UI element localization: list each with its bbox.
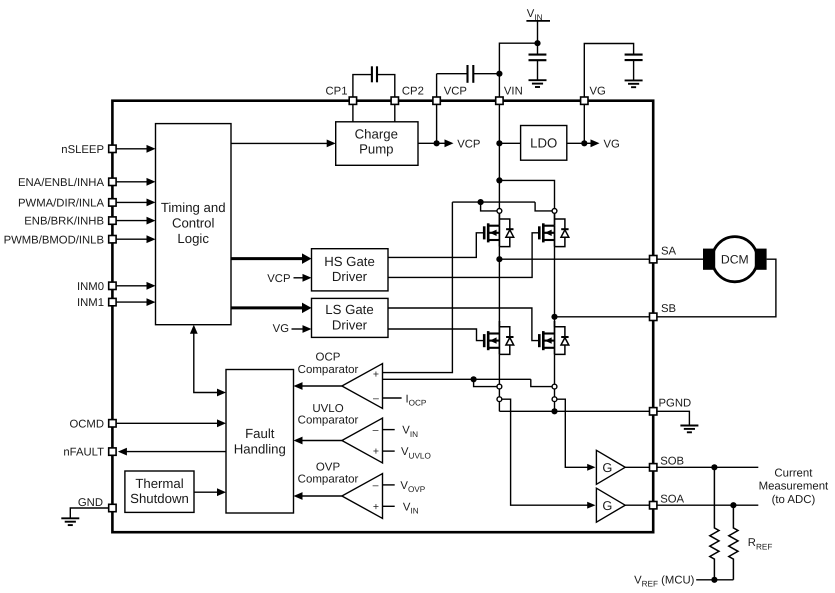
wire CP1 pin to Charge Pump [352,105,354,122]
Q2 drain sense circle [552,209,557,214]
svg-text:(to ADC): (to ADC) [772,494,816,506]
svg-text:nFAULT: nFAULT [63,447,104,459]
svg-text:PWMB/BMOD/INLB: PWMB/BMOD/INLB [4,234,104,246]
svg-text:+: + [373,446,379,458]
svg-text:Comparator: Comparator [298,415,359,427]
label OVP Comparator [298,462,359,486]
resistor RREF-B (on SOB line) [710,467,719,580]
svg-text:OCMD: OCMD [69,418,104,430]
svg-text:SB: SB [661,303,676,315]
svg-text:VG: VG [604,139,620,151]
svg-text:HS Gate: HS Gate [324,254,375,269]
comparator UVLO (triangle) [294,418,383,463]
wire high-side sense down to OCP comparator [383,202,453,373]
label Current Measurement (to ADC) [759,467,829,506]
transistor Q4 (low-side B NMOS with body diode) [539,321,569,354]
wire CP2 pin to Charge Pump [394,105,396,122]
svg-text:LDO: LDO [530,136,557,151]
svg-text:SA: SA [661,245,677,257]
pin VCP [433,85,467,104]
wire VREF rail [696,579,733,581]
wire motor return to SB pin [657,259,776,317]
UVLO - symbol [373,424,379,436]
PGND rail from Q3 to PGND pin [499,410,649,412]
svg-text:+: + [373,369,379,381]
input pin ENA/ENBL/INHA with wire into Timing and Control Logic [18,177,156,189]
wire VIN rail to right high-side FET [499,180,554,208]
pin VG [581,85,606,104]
wire Charge Pump output to VCP node [418,142,437,144]
svg-text:Driver: Driver [332,317,368,332]
wire SOA to ADC [657,504,758,506]
wire SOA amplifier to SOA pin [625,504,649,506]
wire low-side sense net to OCP comparator [383,378,531,380]
junction node SA [496,256,502,262]
junction node VIN H-bridge branch [496,177,502,183]
svg-text:Measurement: Measurement [759,481,829,493]
capacitor C-VG with ground [625,55,643,88]
junction node at VIN supply [534,40,540,46]
wire VG pin down to VG node [583,105,585,143]
comparator OCP (triangle) [294,364,383,409]
device boundary (IC outline) [112,101,653,533]
Q3 sense circle upper [497,384,502,389]
OCP - symbol [373,392,379,404]
bus Timing to HS Gate Driver [231,253,312,264]
wire SOB amplifier to SOB pin [625,466,649,468]
wire Q3 lower circle to SOA amplifier [502,399,596,508]
wire sense tap to Q2 circle [535,202,552,211]
pin VIN [496,85,523,104]
svg-text:INM1: INM1 [77,297,104,309]
svg-text:Comparator: Comparator [298,364,359,376]
label VREF (MCU) [634,574,695,588]
svg-text:–: – [373,480,379,492]
svg-text:VG: VG [590,85,606,97]
Q4 gate wire from LS Gate Driver [388,308,539,341]
Q3 gate wire from LS Gate Driver [388,329,484,341]
junction node VCP-cap on VIN wire [496,71,502,77]
block: HS Gate Driver [312,249,389,291]
wire sense tap to Q3 upper circle [474,379,497,386]
wire VCP pin down to VCP node [436,105,438,143]
svg-text:CP1: CP1 [326,86,348,98]
double arrow Fault Handling to Timing logic [190,325,226,397]
svg-text:SOB: SOB [660,455,684,467]
input pin INM0 with wire into Timing and Control Logic [77,281,156,293]
pin SOA [650,493,685,509]
wire LDO output to VG node [567,142,585,144]
svg-text:Handling: Handling [234,441,286,456]
GND pin wire and ground symbol [61,508,108,525]
Q2 gate wire from HS Gate Driver [388,233,539,278]
OVP - symbol [373,480,379,492]
transistor Q2 (high-side B NMOS with body diode) [539,213,569,246]
svg-text:DCM: DCM [721,253,749,267]
comparator OVP (triangle) [294,474,383,519]
pin CP1 [326,86,357,105]
wire SB node down to Q4 drain [554,317,556,327]
wire Q4 lower circle to SOB amplifier [557,399,596,471]
input pin nSLEEP with wire into Timing and Control Logic [61,144,155,156]
svg-text:Charge: Charge [355,127,398,142]
svg-text:VG: VG [273,323,289,335]
junction node VCP [434,140,440,146]
arrow Thermal Shutdown to Fault Handling [194,488,226,496]
svg-text:Thermal: Thermal [135,476,183,491]
svg-text:PWMA/DIR/INLA: PWMA/DIR/INLA [18,198,104,210]
pin PGND [650,398,692,415]
VG internal arrow and label [584,139,620,151]
svg-text:OCP: OCP [316,351,341,363]
svg-text:ENB/BRK/INHB: ENB/BRK/INHB [24,216,104,228]
svg-text:LS Gate: LS Gate [325,302,373,317]
pin SOB [650,455,685,471]
svg-text:nSLEEP: nSLEEP [61,144,104,156]
junction node PGND rail [551,408,557,414]
VCP supply arrow into HS Gate Driver [267,273,311,285]
svg-text:PGND: PGND [659,398,692,410]
wire from VG pin to VG capacitor [584,44,633,97]
wire from VIN supply to VIN pin [499,43,537,96]
motor DCM (brushed DC motor) [657,237,766,282]
wire Q1 source to SA node [498,247,500,260]
svg-text:ENA/ENBL/INHA: ENA/ENBL/INHA [18,177,104,189]
svg-text:–: – [373,392,379,404]
label UVLO Comparator [298,403,359,427]
wire VIN node to LDO [499,142,520,144]
amplifier G (SOB current sense) [596,450,625,484]
label RREF [748,537,773,551]
capacitor C-VCP (VCP to VIN) [437,65,500,97]
input pin INM1 with wire into Timing and Control Logic [77,297,156,309]
svg-text:Comparator: Comparator [298,474,359,486]
input pin PWMA/DIR/INLA with wire into Timing and Control Logic [18,198,156,210]
svg-text:UVLO: UVLO [312,403,343,415]
wire high-side sense net [452,201,535,203]
Q3 sense circle lower [497,397,502,402]
wire sense tap to Q1 circle [481,202,497,211]
pin SB [650,303,677,321]
bus Timing to LS Gate Driver [231,303,312,314]
block: Timing and Control Logic [156,124,232,325]
Q1 gate wire from HS Gate Driver [388,233,484,258]
VCP internal arrow and label [437,139,481,151]
OCP + symbol [373,369,379,381]
pin CP2 [391,86,424,105]
svg-text:G: G [602,498,612,513]
junction node high-side sense [478,199,484,205]
input pin ENB/BRK/INHB with wire into Timing and Control Logic [24,216,155,228]
PGND pin external ground [657,411,698,432]
wire Q4 source to sense circles [554,354,556,411]
resistor RREF-A (on SOA line) [729,505,738,580]
wire Q3 source to sense circles [498,354,500,411]
VIN supply rail symbol [526,8,550,43]
svg-text:GND: GND [78,497,103,509]
UVLO + symbol [373,446,379,458]
wire SA node to SA pin [499,258,649,260]
wire SB node to SB pin [555,316,650,318]
pin GND [78,497,116,512]
svg-text:+: + [373,501,379,513]
OVP VIN input stub [383,501,419,515]
UVLO VUVLO input stub [383,446,431,460]
svg-text:Current: Current [774,467,813,479]
wire VIN pin down H-bridge rail [498,105,500,209]
svg-text:INM0: INM0 [77,281,104,293]
junction node VG [581,140,587,146]
svg-text:CP2: CP2 [402,86,424,98]
OVP VOVP input stub [383,480,426,494]
junction node VREF rail [711,577,717,583]
pin nFAULT with arrow out of Fault Handling [63,447,226,459]
junction node low-side sense [471,376,477,382]
wire Timing to Charge Pump [231,140,336,148]
transistor Q3 (low-side A NMOS with body diode) [484,321,514,354]
svg-text:Pump: Pump [359,141,393,156]
svg-text:Control: Control [172,215,215,230]
capacitor C-VIN (VIN bypass) with ground [529,43,547,87]
junction node SOA divider [730,502,736,508]
capacitor C-FLY (CP1 to CP2 flying cap) [353,66,395,96]
junction node SB [551,314,557,320]
svg-text:OVP: OVP [316,462,341,474]
junction node SOB divider [711,464,717,470]
svg-text:Driver: Driver [332,269,368,284]
svg-text:G: G [602,460,612,475]
VG supply arrow into LS Gate Driver [273,323,312,335]
svg-text:Shutdown: Shutdown [130,491,189,506]
svg-text:SOA: SOA [660,493,684,505]
block: Thermal Shutdown [125,471,194,512]
Q4 sense circle lower [552,397,557,402]
svg-text:VCP: VCP [457,139,480,151]
IOCP input stub [383,393,427,407]
Q1 drain sense circle [497,209,502,214]
svg-text:Logic: Logic [177,231,209,246]
UVLO VIN input stub [383,425,419,439]
input pin PWMB/BMOD/INLB with wire into Timing and Control Logic [4,234,156,246]
svg-text:VIN: VIN [504,85,523,97]
junction node VIN-LDO [496,140,502,146]
amplifier G (SOA current sense) [596,488,625,522]
pin SA [650,245,677,263]
OVP + symbol [373,501,379,513]
svg-text:VCP: VCP [267,273,290,285]
block: Charge Pump [336,122,418,166]
svg-text:Timing and: Timing and [161,200,226,215]
pin OCMD with wire into Fault Handling [69,418,226,430]
svg-text:–: – [373,424,379,436]
block: Fault Handling [226,370,294,514]
svg-text:VCP: VCP [444,85,467,97]
block: LDO [521,126,567,161]
block: LS Gate Driver [312,298,389,337]
wire sense tap to Q4 upper circle [531,379,552,386]
Q4 sense circle upper [552,384,557,389]
wire SA node down to Q3 drain [498,259,500,327]
transistor Q1 (high-side A NMOS with body diode) [484,213,514,246]
wire SOB to ADC [657,466,758,468]
svg-text:Fault: Fault [245,426,275,441]
wire Q2 source down to SB node [554,247,556,317]
label OCP Comparator [298,351,359,376]
